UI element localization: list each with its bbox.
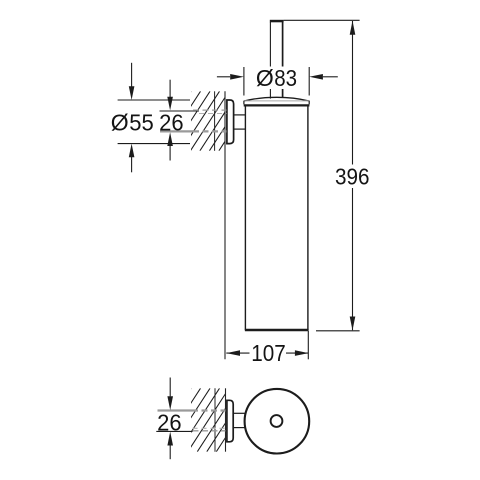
neck (bottom view) bbox=[233, 413, 245, 427]
svg-text:107: 107 bbox=[251, 340, 285, 366]
svg-text:55: 55 bbox=[129, 110, 154, 136]
canister body bbox=[245, 107, 308, 331]
wall inner line (bottom view) bbox=[214, 388, 216, 451]
brush handle rod bbox=[270, 20, 284, 99]
center hole (bottom view) bbox=[271, 415, 283, 427]
dim 26 (bottom view) bbox=[167, 378, 173, 460]
dim Ø55 ticks bbox=[118, 100, 190, 144]
dim 396 bbox=[284, 20, 360, 331]
svg-text:83: 83 bbox=[274, 65, 297, 91]
dim Ø55 arrows bbox=[129, 63, 135, 173]
canister bottom bbox=[245, 329, 309, 331]
screw bottom (side view) bbox=[160, 130, 227, 132]
dim 26 (side view) arrows bbox=[167, 80, 173, 161]
text Ø83 bbox=[252, 67, 299, 90]
holder circle (bottom view) bbox=[245, 389, 310, 454]
wall face line (bottom view) bbox=[225, 388, 227, 451]
screw top (side view) bbox=[160, 110, 227, 113]
svg-text:Ø: Ø bbox=[111, 110, 129, 136]
svg-text:Ø: Ø bbox=[256, 65, 274, 91]
wall hatch (side view) bbox=[152, 91, 257, 151]
wall inner line (side view) bbox=[214, 91, 216, 151]
screw bottom (bottom view) bbox=[156, 428, 225, 431]
svg-text:26: 26 bbox=[159, 110, 184, 136]
lid dome bbox=[244, 97, 310, 105]
svg-text:26: 26 bbox=[157, 410, 182, 436]
neck (side view) bbox=[234, 115, 246, 129]
screw top (bottom view) bbox=[158, 409, 226, 411]
flange escutcheon (bottom view) bbox=[227, 400, 233, 442]
dim Ø83 bbox=[217, 67, 338, 96]
wall hatch (bottom view) bbox=[150, 388, 267, 451]
wall face line + 107 left extension (side view) bbox=[224, 91, 226, 359]
dim 107 bbox=[226, 331, 308, 359]
svg-text:396: 396 bbox=[335, 164, 370, 190]
flange escutcheon (side view) bbox=[227, 100, 234, 144]
